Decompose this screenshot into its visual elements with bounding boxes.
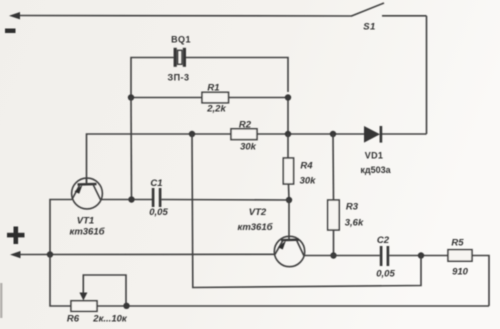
svg-text:2,2k: 2,2k — [206, 104, 226, 115]
label 0,05 C1 — [149, 207, 168, 218]
svg-text:R4: R4 — [300, 161, 313, 172]
label 2k...10k — [92, 314, 128, 325]
svg-text:30k: 30k — [300, 176, 317, 187]
wire R3 top lead — [332, 134, 335, 200]
node left rail C1 junction — [128, 196, 134, 202]
node R2/R4 rail junction — [285, 131, 291, 137]
svg-text:R5: R5 — [451, 238, 464, 249]
resistor R1 — [202, 92, 229, 103]
label R1 — [207, 83, 219, 94]
diode VD1 — [364, 126, 427, 143]
wire left rail to C1 line — [130, 98, 133, 200]
label 2,2k — [206, 104, 226, 115]
wire R4 top lead — [287, 134, 289, 158]
svg-text:VD1: VD1 — [365, 151, 383, 161]
svg-text:кд503а: кд503а — [360, 165, 391, 175]
label S1 — [363, 22, 376, 33]
node C2/R5 junction — [418, 252, 424, 258]
label C2 — [377, 235, 390, 246]
label 3,6k — [345, 218, 364, 229]
svg-text:R3: R3 — [346, 202, 359, 213]
wire R4 bottom lead — [288, 184, 291, 200]
label R3 — [346, 202, 359, 213]
node R4 bottom junction — [286, 197, 292, 203]
node feedback tap — [189, 131, 195, 137]
wire minus rail (top) — [18, 15, 352, 18]
node R3 top junction — [330, 131, 336, 137]
wire R1 left lead — [131, 97, 202, 99]
label kd503a — [360, 165, 391, 175]
svg-text:R1: R1 — [207, 83, 219, 94]
resistor R6 potentiometer — [71, 275, 126, 311]
plus sign — [7, 227, 25, 245]
label BQ1 — [171, 35, 191, 45]
resistor R4 — [283, 158, 293, 184]
svg-text:R6: R6 — [67, 314, 80, 325]
svg-text:VT2: VT2 — [249, 207, 267, 218]
wire VT1 collector to C1 — [101, 199, 153, 201]
resistor R2 — [231, 129, 257, 140]
svg-text:0,05: 0,05 — [376, 269, 395, 280]
label VT1 — [77, 216, 94, 227]
label R4 — [300, 161, 313, 172]
label R2 — [239, 120, 252, 131]
wire VT1 emitter to plus rail — [50, 200, 72, 255]
svg-text:ЗП-3: ЗП-3 — [167, 73, 189, 83]
node R3 bottom junction — [330, 252, 336, 258]
switch S1 — [352, 3, 427, 16]
wire C2 to R5 — [389, 255, 448, 257]
svg-text:VT1: VT1 — [77, 216, 94, 227]
minus sign — [5, 29, 16, 34]
svg-text:кт361б: кт361б — [238, 222, 274, 233]
label 30k R2 — [240, 142, 257, 153]
svg-text:C1: C1 — [150, 178, 162, 189]
wire R3 bottom lead — [333, 230, 335, 256]
wire R1 right lead — [229, 97, 289, 99]
wire VT2 collector to C2 — [304, 255, 380, 257]
wire feedback from R2 tap — [192, 134, 421, 288]
label 30k R4 — [300, 176, 317, 187]
transistor VT1 — [72, 178, 103, 209]
capacitor C2 — [380, 246, 389, 266]
scan smudge bottom-left — [0, 283, 2, 318]
svg-text:C2: C2 — [377, 235, 390, 246]
wire R2 left lead to VT1 base — [87, 134, 232, 184]
svg-text:2к...10к: 2к...10к — [92, 314, 128, 325]
svg-text:BQ1: BQ1 — [171, 35, 191, 45]
wire BQ1 left lead — [131, 58, 174, 98]
label kt361b VT2 — [238, 222, 274, 233]
svg-text:910: 910 — [452, 267, 469, 278]
wire R5 right to bottom rail — [472, 256, 489, 307]
capacitor C1 — [152, 188, 162, 207]
svg-text:3,6k: 3,6k — [345, 218, 364, 229]
node R1 left junction — [128, 94, 134, 100]
plus output arrow — [10, 251, 21, 258]
label R6 — [67, 314, 80, 325]
label C1 — [150, 178, 162, 189]
wire R2 right lead — [257, 133, 364, 135]
label R5 — [451, 238, 464, 249]
svg-text:30k: 30k — [240, 142, 257, 153]
wire bottom rail — [50, 255, 489, 307]
crystal BQ1 — [174, 48, 186, 67]
transistor VT2 — [274, 200, 304, 267]
label 0,05 C2 — [376, 269, 395, 280]
wire plus rail to VT2 emitter — [19, 253, 275, 255]
svg-text:кт361б: кт361б — [70, 227, 106, 238]
label 910 — [452, 267, 469, 278]
node R1 right junction — [285, 94, 291, 100]
label kt361b VT1 — [70, 227, 106, 238]
svg-text:0,05: 0,05 — [149, 207, 168, 218]
node plus rail junction — [47, 251, 53, 257]
wire S1 to VD1 cathode — [426, 16, 428, 134]
label VT2 — [249, 207, 267, 218]
label ZP-3 — [167, 73, 189, 83]
wire BQ1 right lead — [186, 58, 288, 93]
svg-text:S1: S1 — [363, 22, 376, 33]
resistor R5 — [448, 250, 472, 262]
wire C1 to VT2 base node — [161, 199, 289, 202]
wire right rail R1 to R2 — [287, 98, 289, 135]
minus output arrow — [9, 12, 20, 19]
resistor R3 — [328, 200, 340, 230]
node R6 right junction — [123, 303, 129, 309]
label VD1 — [365, 151, 383, 161]
svg-text:R2: R2 — [239, 120, 252, 131]
